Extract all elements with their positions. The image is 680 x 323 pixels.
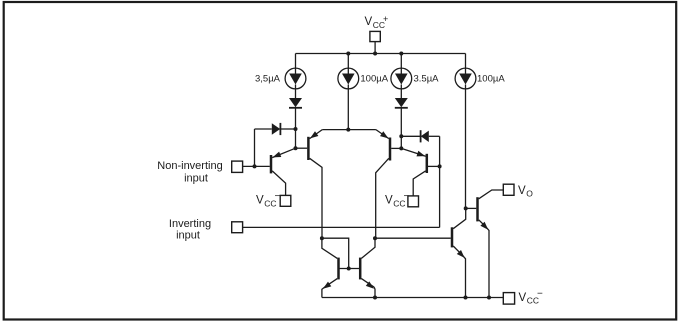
junction left base node xyxy=(294,146,298,150)
diode D4 under I3 xyxy=(395,89,408,136)
junction D2 row xyxy=(399,134,403,138)
wire top rail xyxy=(296,53,466,55)
svg-text:−: − xyxy=(404,191,410,202)
wire hat right xyxy=(348,129,376,131)
transistor Q1 (left input PNP) xyxy=(271,148,296,195)
wire right column diode row to base row xyxy=(400,136,402,148)
junction mirror base xyxy=(347,267,351,271)
svg-text:3.5µA: 3.5µA xyxy=(414,73,440,84)
junction output base node xyxy=(464,206,468,210)
label VCC+ xyxy=(365,14,389,30)
node Non-inverting input terminal xyxy=(232,161,243,172)
junction D1 row xyxy=(294,127,298,131)
label VO xyxy=(518,185,533,199)
wire left column diode row to base row xyxy=(295,129,297,148)
wire VCC+ to rail xyxy=(374,42,376,54)
svg-text:−: − xyxy=(275,191,281,202)
junction mirror left top xyxy=(320,236,324,240)
junction hat center xyxy=(346,128,350,132)
wire inverting input xyxy=(243,226,440,228)
wire non-inv input to Q1 base xyxy=(243,165,270,167)
svg-text:input: input xyxy=(184,173,208,185)
junction rail-Q8 emitter xyxy=(487,296,491,300)
transistor Q3 (right common-base PNP) xyxy=(376,130,402,239)
svg-text:100µA: 100µA xyxy=(360,73,388,84)
svg-text:V: V xyxy=(385,195,393,207)
junction rail-CS2 xyxy=(346,52,350,56)
label VCC- right xyxy=(385,191,410,208)
svg-text:100µA: 100µA xyxy=(477,73,505,84)
wire mirror base link xyxy=(339,268,361,270)
label VCC- bottom xyxy=(519,288,544,305)
junction right base node xyxy=(399,146,403,150)
junction rail-VCC xyxy=(373,52,377,56)
transistor Q2 (left common-base PNP) xyxy=(296,130,323,239)
svg-text:V: V xyxy=(518,185,526,197)
svg-text:V: V xyxy=(256,195,264,207)
svg-text:O: O xyxy=(526,188,533,198)
transistor Q7 (lower output NPN) xyxy=(452,208,466,297)
svg-text:input: input xyxy=(176,230,200,242)
transistor Q4 (right input PNP) xyxy=(401,148,439,196)
node VCC+ terminal xyxy=(370,31,380,41)
junction rail-Q7 emitter xyxy=(464,296,468,300)
svg-text:−: − xyxy=(537,288,543,299)
node VO terminal xyxy=(503,184,514,195)
svg-text:V: V xyxy=(519,292,527,304)
wire hat left xyxy=(322,129,348,131)
node VCC- terminal right xyxy=(408,196,419,207)
wire CS2 to hat xyxy=(347,89,349,130)
wire mirror to Q7 base xyxy=(375,237,451,239)
transistor Q8 (top output NPN) xyxy=(466,190,504,298)
junction mirror right top xyxy=(373,236,377,240)
current source I3 3.5uA xyxy=(391,54,412,90)
current source I4 100uA xyxy=(455,54,476,90)
node VCC- terminal left xyxy=(280,195,291,206)
junction inverting base xyxy=(438,164,442,168)
diode D2 (right clamp) xyxy=(401,130,439,142)
svg-text:V: V xyxy=(365,16,373,28)
svg-text:3,5µA: 3,5µA xyxy=(255,73,281,84)
diode D3 under I1 xyxy=(289,89,302,129)
current source I2 100uA xyxy=(338,54,359,90)
wire CS4 down to output base node xyxy=(465,89,467,208)
svg-text:Non-inverting: Non-inverting xyxy=(157,160,222,172)
node VCC- terminal bottom xyxy=(503,293,514,305)
transistor Q6 (current mirror right) xyxy=(360,238,375,297)
junction rail-mirror emitter xyxy=(373,296,377,300)
label VCC- left xyxy=(256,191,281,208)
wire bottom rail xyxy=(322,297,503,299)
wire D1 branch down to non-inv input xyxy=(254,129,256,166)
transistor Q5 (current mirror left, diode connected) xyxy=(322,238,349,297)
label Inverting input xyxy=(169,218,211,242)
junction rail-CS3 xyxy=(399,52,403,56)
junction non-inv branch xyxy=(253,164,257,168)
label Non-inverting input xyxy=(157,160,222,185)
current source I1 3,5uA xyxy=(285,54,306,90)
node Inverting input terminal xyxy=(232,222,243,233)
svg-text:+: + xyxy=(383,14,388,24)
wire D2 down to inverting base node xyxy=(439,136,441,227)
diode D1 (left clamp) xyxy=(255,123,296,135)
svg-text:Inverting: Inverting xyxy=(169,218,211,230)
